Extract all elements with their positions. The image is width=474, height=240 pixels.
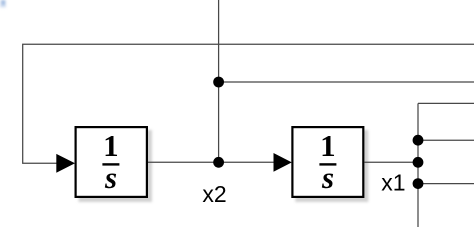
svg-text:1: 1 — [320, 128, 336, 163]
wire: feedback from right edge along top, down left side, into integrator 1 input — [23, 44, 474, 163]
wire: branch from node E to right edge — [418, 183, 474, 185]
svg-text:1: 1 — [103, 128, 119, 163]
wire: top branch of x1 net to right edge — [418, 102, 474, 104]
decorative artifact: light blue mark top-left — [0, 0, 6, 8]
arrowhead into integrator block 2 — [274, 153, 292, 172]
integrator block U1 (1/s) — [76, 127, 147, 197]
svg-text:x1: x1 — [381, 169, 405, 195]
wire: tap from node A to right edge — [219, 81, 474, 83]
value label 1/s of block U1 — [102, 128, 119, 195]
value label 1/s of block U2 — [319, 128, 336, 195]
node C (junction dot on x1 net) — [413, 135, 424, 146]
svg-text:x2: x2 — [202, 181, 226, 207]
wire: branch from node C to right edge — [418, 139, 474, 141]
svg-text:s: s — [104, 160, 117, 195]
node B (junction dot x2 on output wire) — [213, 157, 224, 168]
wire: vertical net x1 — [417, 103, 419, 227]
arrowhead into integrator block 1 — [56, 154, 75, 173]
integrator block U2 (1/s) — [292, 127, 363, 197]
integrator block 2 shadow — [295, 130, 368, 202]
node A (junction dot on x2 vertical) — [213, 77, 224, 88]
svg-text:s: s — [321, 160, 334, 195]
node E (junction dot on x1 net) — [413, 178, 424, 189]
integrator block 1 shadow — [79, 130, 153, 202]
wire: vertical net x2 from top edge down to node on integrator 1 output — [218, 0, 220, 162]
wire: integrator 2 output to x1 vertical net — [364, 161, 418, 163]
node D (junction dot where integrator 2 output joins x1 net) — [413, 157, 424, 168]
wire: integrator 1 output to integrator 2 input — [148, 161, 275, 163]
